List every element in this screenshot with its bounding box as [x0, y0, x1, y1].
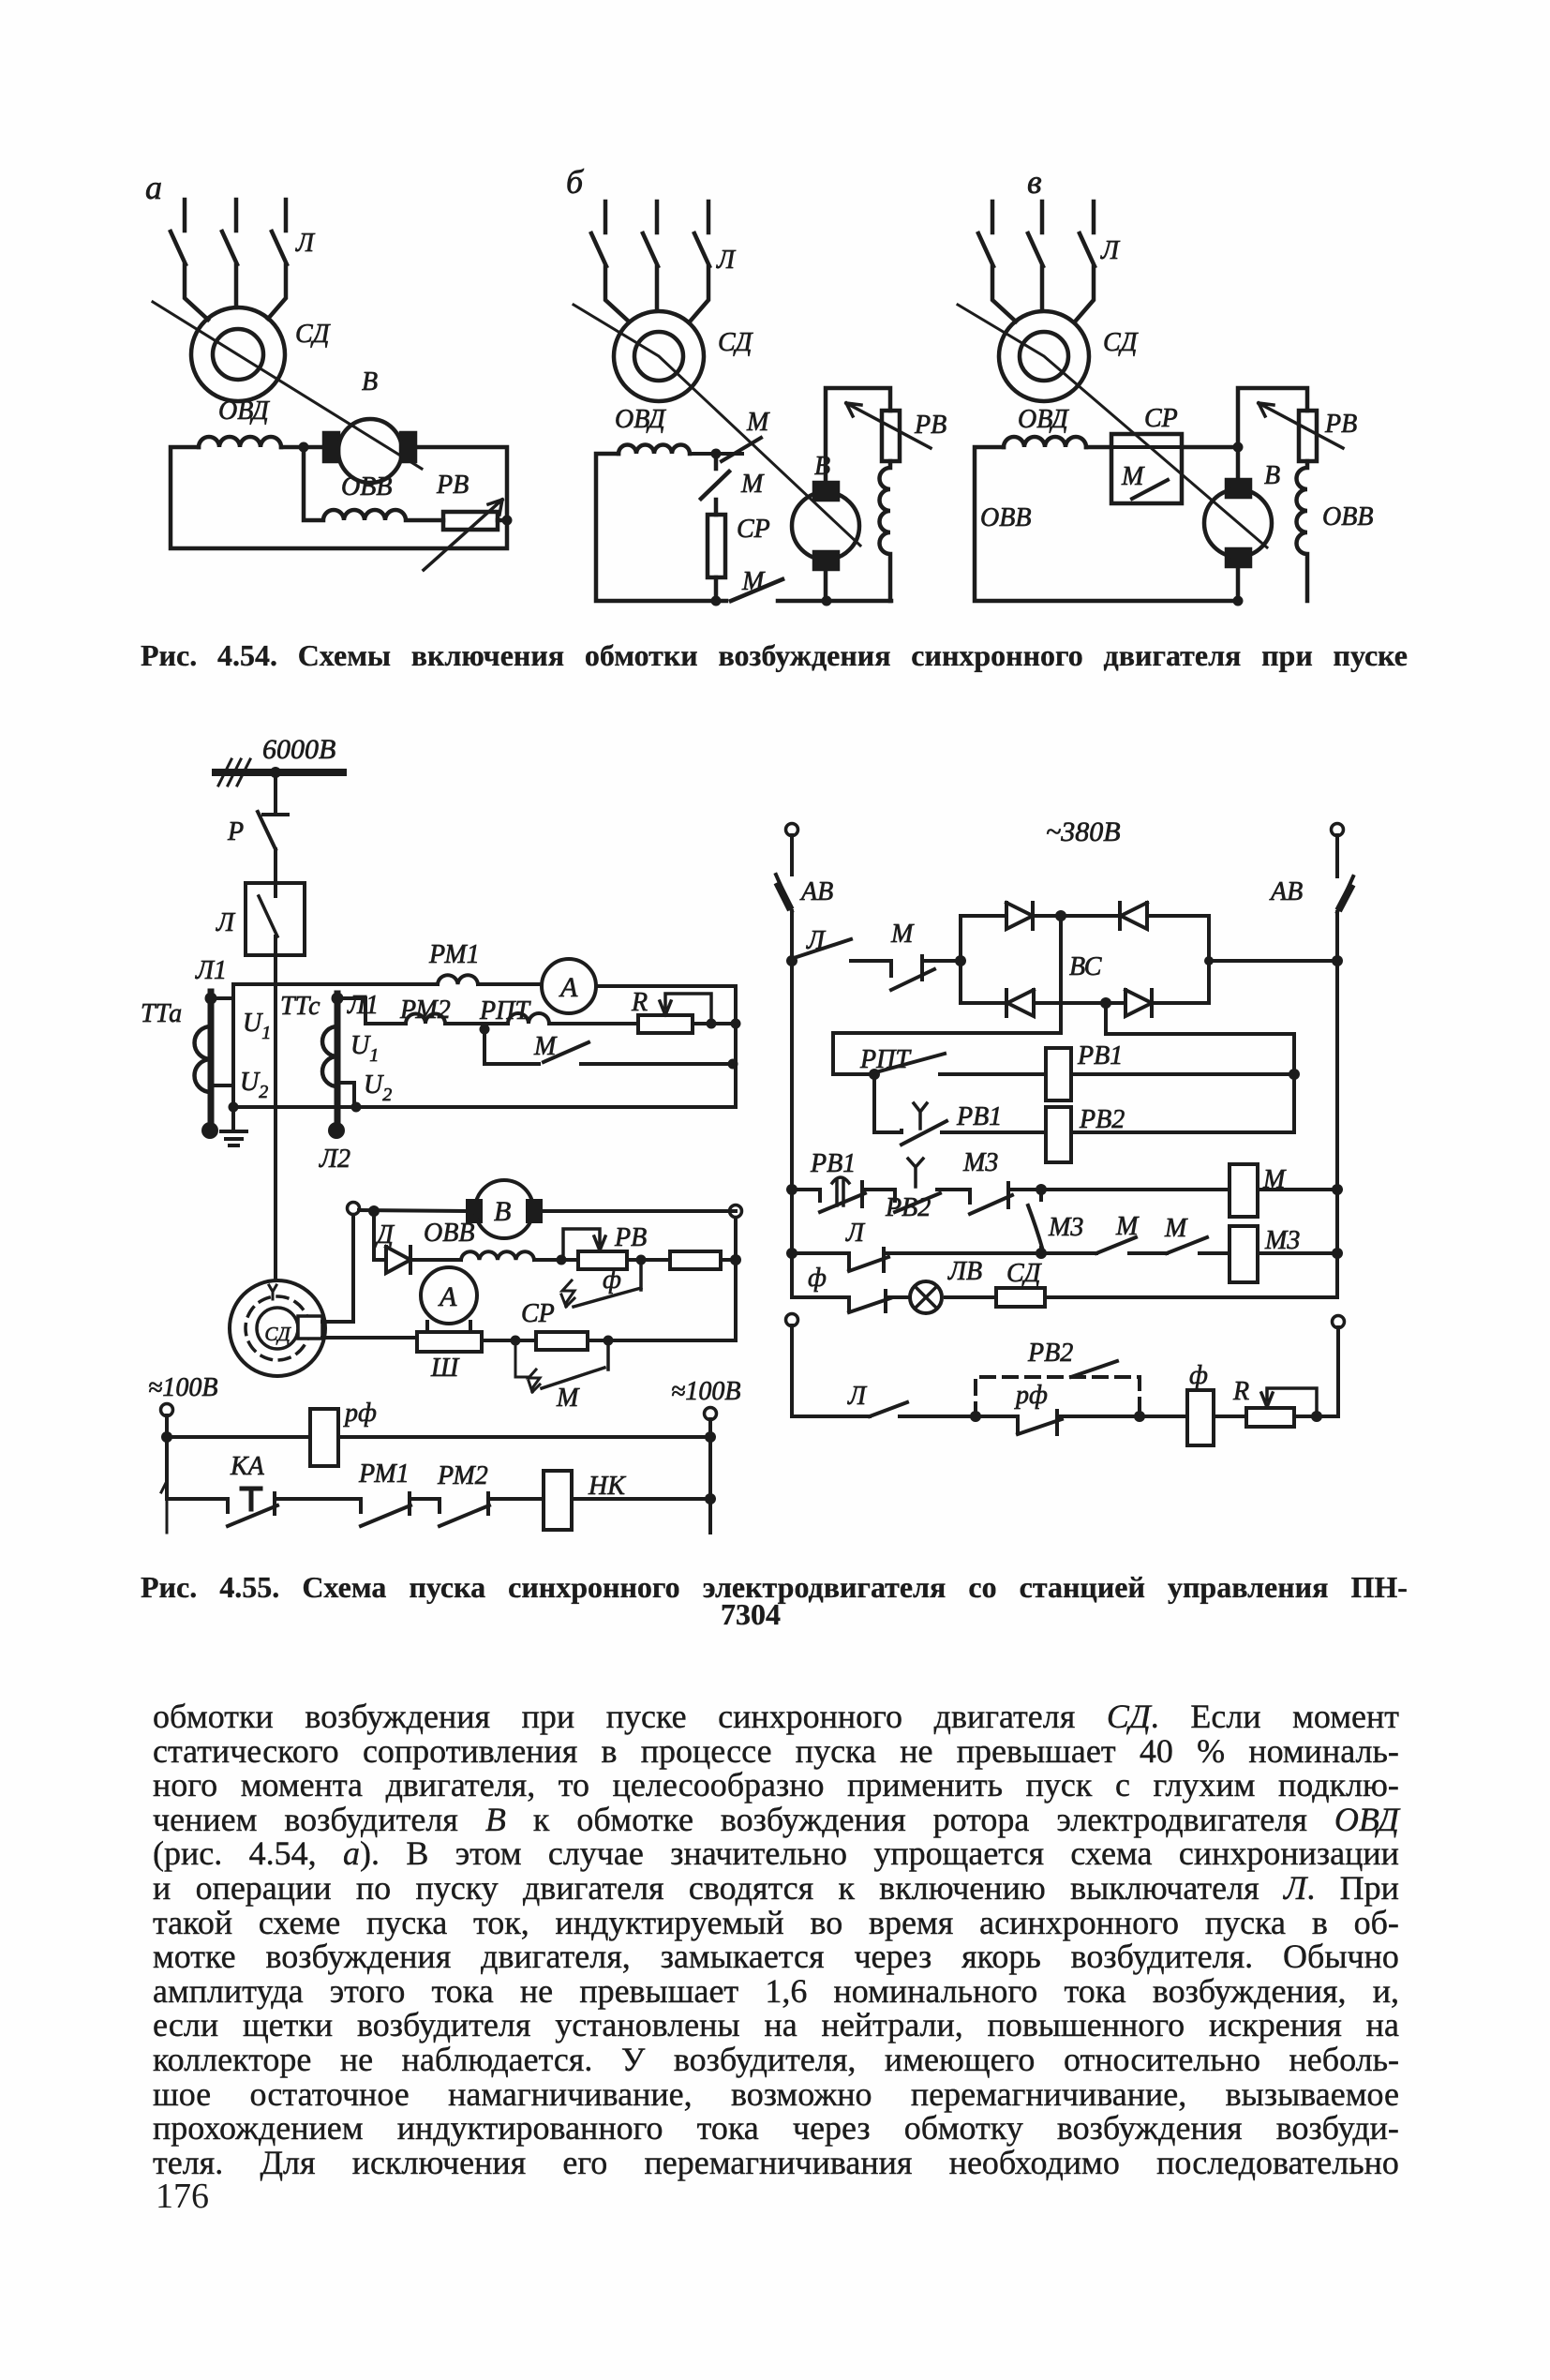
svg-text:U2: U2: [364, 1070, 392, 1105]
svg-text:Л1: Л1: [195, 956, 227, 985]
svg-text:РМ2: РМ2: [437, 1461, 488, 1490]
svg-text:СР: СР: [737, 515, 770, 544]
svg-text:рф: рф: [1014, 1381, 1048, 1410]
svg-text:М3: М3: [962, 1148, 998, 1177]
svg-text:Л2: Л2: [319, 1145, 350, 1174]
svg-text:U1: U1: [350, 1031, 379, 1066]
svg-text:РМ1: РМ1: [358, 1459, 410, 1489]
svg-text:СД: СД: [718, 328, 754, 357]
svg-text:ф: ф: [808, 1264, 827, 1293]
svg-text:Л: Л: [806, 926, 827, 955]
svg-text:В: В: [494, 1196, 511, 1227]
svg-text:РВ2: РВ2: [1079, 1105, 1125, 1134]
svg-text:а: а: [145, 169, 162, 206]
svg-text:СД: СД: [1006, 1259, 1043, 1288]
svg-text:ТТс: ТТс: [280, 992, 320, 1021]
svg-text:РВ: РВ: [1324, 410, 1357, 439]
svg-text:ОВВ: ОВВ: [341, 472, 392, 501]
svg-text:рф: рф: [343, 1399, 377, 1428]
svg-text:М: М: [890, 920, 915, 949]
svg-text:РВ2: РВ2: [1027, 1339, 1073, 1368]
svg-text:АВ: АВ: [1269, 877, 1303, 906]
svg-text:М3: М3: [1048, 1213, 1083, 1242]
svg-text:СД: СД: [1103, 328, 1140, 357]
svg-text:Р: Р: [227, 817, 244, 846]
svg-text:РМ1: РМ1: [428, 940, 480, 969]
svg-text:Д: Д: [374, 1220, 395, 1250]
svg-text:ТТа: ТТа: [141, 999, 182, 1028]
svg-text:Л: Л: [845, 1219, 866, 1248]
svg-text:U2: U2: [240, 1068, 268, 1102]
svg-text:РВ: РВ: [436, 471, 469, 500]
svg-text:М: М: [741, 567, 766, 596]
svg-text:R: R: [631, 988, 648, 1017]
svg-text:ВС: ВС: [1069, 952, 1102, 981]
svg-text:РВ1: РВ1: [1077, 1041, 1123, 1070]
svg-text:Л: Л: [716, 246, 737, 275]
svg-text:А: А: [559, 972, 578, 1003]
svg-text:ОВД: ОВД: [1018, 405, 1070, 434]
svg-text:НК: НК: [588, 1472, 626, 1501]
svg-text:Л: Л: [216, 908, 236, 937]
svg-text:Л: Л: [1100, 236, 1121, 265]
svg-text:РВ: РВ: [614, 1223, 647, 1252]
svg-text:М: М: [1164, 1214, 1188, 1243]
svg-text:КА: КА: [230, 1452, 265, 1481]
svg-text:ЛВ: ЛВ: [947, 1257, 982, 1286]
svg-text:в: в: [1027, 163, 1042, 201]
svg-text:СР: СР: [521, 1299, 555, 1328]
svg-text:Ш: Ш: [430, 1354, 460, 1383]
svg-text:М3: М3: [1264, 1226, 1300, 1255]
svg-text:СД: СД: [264, 1323, 291, 1345]
svg-text:РМ2: РМ2: [399, 995, 451, 1025]
svg-text:РПТ: РПТ: [859, 1045, 912, 1074]
svg-text:U1: U1: [243, 1009, 271, 1043]
svg-text:АВ: АВ: [799, 877, 833, 906]
svg-text:РВ: РВ: [914, 411, 946, 440]
svg-text:РВ2: РВ2: [885, 1193, 931, 1222]
svg-text:М: М: [556, 1384, 580, 1413]
svg-text:~380В: ~380В: [1046, 816, 1121, 847]
svg-text:М: М: [533, 1032, 558, 1061]
svg-text:ОВВ: ОВВ: [1322, 502, 1373, 531]
svg-text:В: В: [1264, 461, 1280, 490]
svg-text:Л1: Л1: [347, 991, 379, 1020]
svg-text:РПТ: РПТ: [479, 996, 531, 1025]
svg-text:М: М: [740, 470, 765, 499]
svg-text:6000В: 6000В: [262, 734, 335, 765]
svg-text:б: б: [566, 163, 585, 201]
svg-text:≈100В: ≈100В: [671, 1377, 740, 1406]
svg-text:ОВВ: ОВВ: [980, 503, 1031, 532]
svg-text:М: М: [1121, 462, 1145, 491]
svg-text:А: А: [438, 1281, 457, 1312]
svg-text:В: В: [362, 367, 378, 397]
svg-text:ОВД: ОВД: [218, 397, 271, 426]
svg-text:СД: СД: [295, 320, 332, 349]
svg-text:ф: ф: [603, 1265, 621, 1295]
svg-text:R: R: [1232, 1377, 1249, 1406]
svg-text:Л: Л: [847, 1382, 868, 1411]
svg-text:СР: СР: [1144, 404, 1178, 433]
svg-text:ОВВ: ОВВ: [424, 1219, 474, 1248]
svg-text:М: М: [1115, 1212, 1140, 1241]
svg-text:М: М: [1262, 1165, 1287, 1194]
svg-text:≈100В: ≈100В: [148, 1373, 217, 1402]
svg-text:РВ1: РВ1: [956, 1102, 1002, 1131]
svg-text:В: В: [814, 452, 830, 481]
svg-text:ОВД: ОВД: [615, 405, 667, 434]
svg-text:Л: Л: [295, 229, 316, 258]
svg-text:М: М: [746, 408, 770, 437]
svg-text:РВ1: РВ1: [810, 1149, 856, 1178]
svg-text:ф: ф: [1189, 1361, 1208, 1390]
